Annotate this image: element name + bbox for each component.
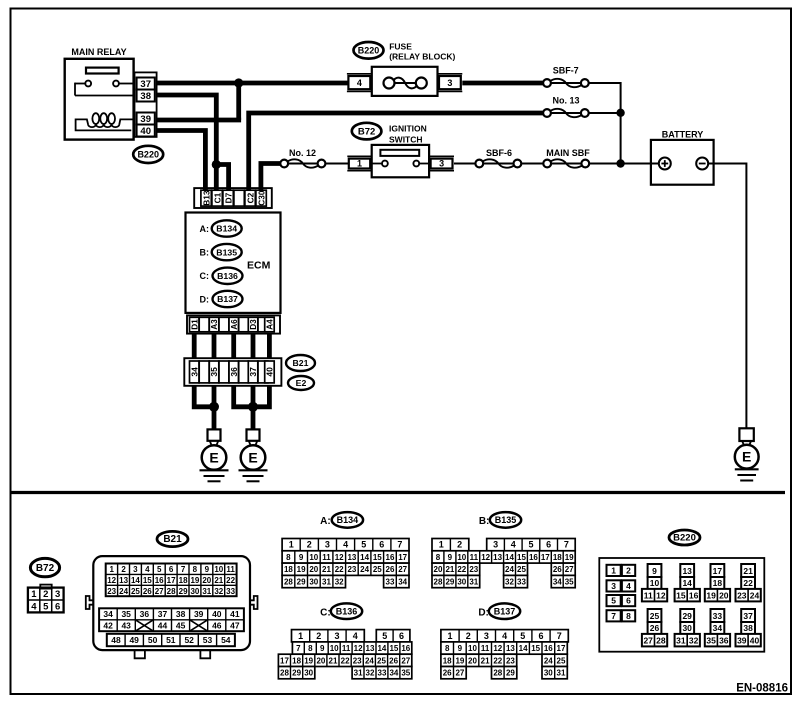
svg-text:49: 49	[129, 635, 139, 645]
svg-text:13: 13	[493, 553, 502, 562]
svg-text:5: 5	[611, 596, 616, 606]
svg-text:15: 15	[389, 644, 398, 653]
svg-text:38: 38	[743, 623, 753, 633]
svg-text:21: 21	[445, 565, 454, 574]
svg-text:B220: B220	[673, 533, 696, 544]
svg-text:27: 27	[643, 635, 653, 645]
wire D1 to 34	[192, 334, 197, 359]
svg-text:28: 28	[434, 578, 443, 587]
junction node on 37 line	[234, 78, 243, 87]
svg-text:B137: B137	[217, 294, 238, 304]
svg-text:13: 13	[366, 644, 375, 653]
connector B21 ref	[286, 355, 315, 371]
svg-text:37: 37	[743, 611, 753, 621]
svg-text:21: 21	[322, 565, 331, 574]
svg-text:27: 27	[398, 565, 407, 574]
svg-text:6: 6	[55, 602, 60, 613]
ignition switch pin 1	[347, 155, 371, 157]
svg-text:31: 31	[676, 635, 686, 645]
svg-text:5: 5	[43, 602, 49, 613]
svg-text:26: 26	[650, 623, 660, 633]
svg-text:24: 24	[360, 565, 369, 574]
svg-text:7: 7	[611, 611, 616, 621]
svg-text:34: 34	[389, 669, 398, 678]
wire A6 to 36	[231, 334, 236, 359]
svg-text:2: 2	[307, 540, 312, 550]
svg-text:B135: B135	[216, 247, 237, 257]
svg-text:5: 5	[361, 540, 366, 550]
ground terminal (battery)	[739, 428, 753, 441]
connector B220 (fuse box) label	[669, 530, 700, 545]
svg-text:11: 11	[644, 590, 653, 600]
svg-text:23: 23	[107, 587, 116, 596]
svg-text:FUSE: FUSE	[389, 41, 412, 51]
connector B220 (main relay)	[133, 146, 163, 163]
svg-text:C1: C1	[212, 192, 222, 203]
svg-text:34: 34	[553, 578, 562, 587]
svg-text:3: 3	[484, 631, 489, 641]
svg-text:46: 46	[212, 621, 222, 631]
ground terminal 2	[247, 429, 260, 440]
svg-text:12: 12	[493, 644, 502, 653]
svg-text:D:: D:	[478, 608, 489, 619]
svg-text:33: 33	[226, 587, 235, 596]
svg-text:35: 35	[121, 609, 131, 619]
B220 pins 21-24	[736, 564, 761, 601]
svg-text:3: 3	[334, 631, 339, 641]
junction node ground 1	[209, 402, 219, 412]
svg-text:11: 11	[342, 644, 351, 653]
svg-text:27: 27	[155, 587, 164, 596]
svg-text:D1: D1	[189, 319, 199, 330]
svg-text:B13: B13	[201, 190, 211, 206]
fuse block pin 4	[347, 73, 372, 75]
svg-text:1: 1	[298, 631, 303, 641]
svg-text:MAIN SBF: MAIN SBF	[546, 148, 590, 158]
connector A B134 pin grid	[282, 539, 409, 588]
svg-text:47: 47	[230, 621, 240, 631]
svg-text:C30: C30	[256, 190, 266, 206]
svg-text:E2: E2	[296, 378, 307, 388]
svg-text:12: 12	[107, 576, 116, 585]
svg-text:19: 19	[706, 590, 716, 600]
svg-text:No. 13: No. 13	[552, 96, 579, 106]
svg-text:14: 14	[377, 644, 386, 653]
wire branch 37-39 vertical	[236, 83, 241, 120]
svg-text:44: 44	[158, 621, 168, 631]
svg-text:27: 27	[401, 656, 410, 665]
svg-text:20: 20	[434, 565, 443, 574]
svg-text:28: 28	[280, 669, 289, 678]
svg-text:7: 7	[181, 565, 186, 574]
svg-text:4: 4	[502, 631, 507, 641]
ground E (2)	[241, 445, 266, 470]
svg-text:30: 30	[457, 578, 466, 587]
svg-text:26: 26	[443, 669, 452, 678]
svg-text:28: 28	[493, 669, 502, 678]
svg-text:No. 12: No. 12	[289, 148, 316, 158]
wire 35 to ground terminal	[212, 386, 217, 430]
svg-text:9: 9	[320, 644, 325, 653]
svg-text:11: 11	[226, 565, 235, 574]
svg-text:11: 11	[481, 644, 490, 653]
svg-text:22: 22	[457, 565, 466, 574]
B220 pins 25-28	[642, 609, 667, 646]
ground symbol (battery)	[735, 468, 759, 470]
svg-text:6: 6	[546, 540, 551, 550]
svg-text:9: 9	[448, 553, 453, 562]
fuse in relay block	[372, 67, 438, 96]
svg-text:21: 21	[214, 576, 223, 585]
svg-text:20: 20	[719, 590, 729, 600]
svg-text:5: 5	[528, 540, 533, 550]
svg-text:52: 52	[184, 635, 194, 645]
svg-text:31: 31	[557, 669, 566, 678]
svg-text:31: 31	[202, 587, 211, 596]
svg-text:34: 34	[398, 578, 407, 587]
svg-text:8: 8	[626, 611, 631, 621]
svg-text:25: 25	[131, 587, 140, 596]
svg-text:26: 26	[389, 656, 398, 665]
svg-text:14: 14	[360, 553, 369, 562]
svg-text:7: 7	[296, 644, 301, 653]
svg-text:31: 31	[469, 578, 478, 587]
svg-text:40: 40	[750, 635, 760, 645]
svg-text:16: 16	[544, 644, 553, 653]
wire branch to D7	[216, 165, 228, 191]
svg-text:40: 40	[265, 367, 275, 377]
svg-text:EN-08816: EN-08816	[736, 683, 788, 695]
svg-text:17: 17	[398, 553, 407, 562]
wire A4 to 40	[267, 334, 272, 359]
svg-text:14: 14	[131, 576, 140, 585]
svg-text:19: 19	[304, 656, 313, 665]
svg-text:35: 35	[706, 635, 716, 645]
svg-text:SBF-6: SBF-6	[486, 148, 512, 158]
svg-text:32: 32	[214, 587, 223, 596]
svg-text:18: 18	[179, 576, 188, 585]
svg-text:3: 3	[325, 540, 330, 550]
svg-text:MAIN RELAY: MAIN RELAY	[71, 47, 126, 57]
svg-text:18: 18	[443, 656, 452, 665]
svg-text:SBF-7: SBF-7	[553, 65, 579, 75]
svg-text:24: 24	[365, 656, 374, 665]
svg-text:19: 19	[565, 553, 574, 562]
main relay MR	[65, 47, 135, 140]
svg-text:50: 50	[148, 635, 158, 645]
svg-text:8: 8	[436, 553, 441, 562]
svg-text:E: E	[209, 450, 218, 466]
svg-text:33: 33	[386, 578, 395, 587]
connector B B135 pin grid	[432, 539, 575, 588]
section divider line	[11, 491, 786, 494]
svg-text:B21: B21	[163, 534, 182, 545]
B220 pins 33-36	[705, 609, 730, 646]
svg-text:24: 24	[750, 590, 760, 600]
svg-text:54: 54	[221, 635, 231, 645]
svg-text:16: 16	[386, 553, 395, 562]
wire SBF-7 to node	[589, 83, 621, 113]
svg-text:A3: A3	[209, 319, 219, 330]
svg-text:16: 16	[155, 576, 164, 585]
svg-text:14: 14	[682, 578, 692, 588]
svg-text:28: 28	[167, 587, 176, 596]
svg-text:19: 19	[455, 656, 464, 665]
svg-text:16: 16	[529, 553, 538, 562]
svg-text:E: E	[248, 450, 257, 466]
ECM top connector pins B13 C1 D7 C2 C30	[194, 188, 272, 208]
ECM bottom connector pins D1 A3 A6 D3 A4	[187, 315, 280, 333]
svg-text:28: 28	[656, 635, 666, 645]
svg-text:23: 23	[469, 565, 478, 574]
wire 37 to ground terminal	[251, 386, 256, 430]
svg-text:25: 25	[517, 565, 526, 574]
svg-text:10: 10	[650, 578, 660, 588]
connector E2 ref	[288, 376, 314, 390]
svg-text:B72: B72	[358, 126, 375, 137]
svg-text:1: 1	[447, 631, 452, 641]
svg-text:15: 15	[373, 553, 382, 562]
svg-text:24: 24	[505, 565, 514, 574]
svg-text:18: 18	[713, 578, 723, 588]
svg-text:17: 17	[557, 644, 566, 653]
svg-text:27: 27	[455, 669, 464, 678]
svg-text:12: 12	[335, 553, 344, 562]
ground symbol (1)	[200, 469, 229, 471]
svg-text:10: 10	[330, 644, 339, 653]
svg-text:29: 29	[445, 578, 454, 587]
ground terminal 1	[208, 429, 221, 440]
svg-text:2: 2	[121, 565, 126, 574]
wire 34 to junction	[194, 386, 214, 407]
svg-text:1: 1	[611, 566, 616, 576]
svg-text:5: 5	[157, 565, 162, 574]
svg-text:B134: B134	[337, 515, 359, 525]
connector B220 (fuse relay block)	[354, 42, 384, 59]
svg-text:18: 18	[553, 553, 562, 562]
svg-text:31: 31	[322, 578, 331, 587]
svg-text:A:: A:	[200, 224, 210, 234]
svg-text:9: 9	[652, 566, 657, 576]
svg-text:33: 33	[517, 578, 526, 587]
svg-text:35: 35	[565, 578, 574, 587]
svg-text:B:: B:	[479, 516, 490, 527]
svg-text:33: 33	[378, 669, 387, 678]
svg-text:20: 20	[316, 656, 325, 665]
ground E (1)	[202, 445, 227, 470]
wire ECM C30 to fuse No.12	[261, 164, 281, 191]
svg-text:15: 15	[517, 553, 526, 562]
svg-text:B135: B135	[495, 515, 517, 525]
B220 pins 9-12	[642, 564, 667, 601]
svg-text:6: 6	[379, 540, 384, 550]
svg-text:1: 1	[289, 540, 294, 550]
svg-text:37: 37	[248, 367, 258, 377]
wire D3 to 37	[251, 334, 256, 359]
svg-text:1: 1	[439, 540, 444, 550]
svg-text:20: 20	[309, 565, 318, 574]
svg-text:4: 4	[145, 565, 150, 574]
svg-text:28: 28	[284, 578, 293, 587]
body connector row pins 34 35 36 37 40	[184, 358, 281, 386]
B220 pins 29-32	[675, 609, 700, 646]
wire pin39 horizontal	[157, 118, 242, 123]
svg-text:B21: B21	[293, 358, 309, 368]
svg-text:12: 12	[354, 644, 363, 653]
svg-text:30: 30	[544, 669, 553, 678]
svg-text:36: 36	[229, 367, 239, 377]
svg-text:40: 40	[140, 126, 151, 137]
svg-text:8: 8	[308, 644, 313, 653]
svg-text:29: 29	[297, 578, 306, 587]
svg-text:17: 17	[713, 566, 723, 576]
fuse block pin 3	[438, 73, 463, 75]
svg-text:C:: C:	[320, 608, 331, 619]
B220 pins 37-40	[736, 609, 761, 646]
wire fuse pin3 to SBF-7	[462, 81, 543, 86]
svg-text:3: 3	[439, 159, 444, 169]
svg-text:3: 3	[133, 565, 138, 574]
svg-text:25: 25	[557, 656, 566, 665]
svg-text:27: 27	[565, 565, 574, 574]
connector B21 pinout label	[157, 531, 188, 546]
wire MAIN SBF to battery	[589, 163, 659, 165]
wire No.13 run to ECM C2	[249, 113, 543, 190]
junction node on C1 wire	[212, 160, 221, 169]
svg-text:17: 17	[280, 656, 289, 665]
svg-text:23: 23	[506, 656, 515, 665]
svg-text:30: 30	[304, 669, 313, 678]
svg-text:34: 34	[103, 609, 113, 619]
svg-text:C:: C:	[200, 271, 210, 281]
svg-text:21: 21	[481, 656, 490, 665]
svg-text:36: 36	[719, 635, 729, 645]
svg-text:48: 48	[111, 635, 121, 645]
svg-text:34: 34	[189, 367, 199, 377]
svg-text:22: 22	[743, 578, 753, 588]
svg-text:A6: A6	[229, 319, 239, 330]
svg-text:18: 18	[284, 565, 293, 574]
svg-text:12: 12	[656, 590, 666, 600]
svg-text:32: 32	[335, 578, 344, 587]
connector B72 pinout	[30, 558, 59, 576]
svg-text:B220: B220	[137, 150, 159, 160]
wire A3 to 35	[212, 334, 217, 359]
svg-text:E: E	[742, 449, 751, 465]
svg-text:6: 6	[169, 565, 174, 574]
svg-text:43: 43	[121, 621, 131, 631]
svg-text:2: 2	[466, 631, 471, 641]
svg-text:25: 25	[377, 656, 386, 665]
main relay connector pins 37 38 39 40	[135, 72, 157, 137]
svg-text:25: 25	[650, 611, 660, 621]
svg-text:13: 13	[682, 566, 692, 576]
ignition switch pin 3	[429, 155, 454, 157]
wire 40 to junction	[253, 386, 269, 407]
svg-text:SWITCH: SWITCH	[389, 135, 423, 145]
svg-text:22: 22	[493, 656, 502, 665]
B220 fuse box outline	[599, 558, 764, 652]
svg-text:35: 35	[209, 367, 219, 377]
svg-text:51: 51	[166, 635, 176, 645]
wire SBF-6 to MAIN SBF	[521, 163, 543, 165]
B220 pins 13-16	[675, 564, 700, 601]
svg-text:19: 19	[190, 576, 199, 585]
svg-text:16: 16	[401, 644, 410, 653]
svg-text:B136: B136	[336, 606, 358, 616]
svg-text:22: 22	[226, 576, 235, 585]
wire battery minus to ground	[708, 164, 746, 429]
svg-text:42: 42	[103, 621, 113, 631]
svg-text:2: 2	[43, 589, 48, 600]
wire No.13 to node	[589, 112, 621, 114]
svg-text:8: 8	[286, 553, 291, 562]
svg-text:2: 2	[626, 566, 631, 576]
svg-text:2: 2	[316, 631, 321, 641]
svg-text:7: 7	[564, 540, 569, 550]
svg-text:B:: B:	[200, 248, 210, 258]
svg-text:4: 4	[353, 631, 358, 641]
svg-text:B136: B136	[217, 271, 238, 281]
svg-text:32: 32	[689, 635, 699, 645]
svg-text:24: 24	[544, 656, 553, 665]
svg-text:B137: B137	[494, 606, 516, 616]
svg-text:53: 53	[203, 635, 213, 645]
svg-text:5: 5	[382, 631, 387, 641]
svg-text:38: 38	[176, 609, 186, 619]
svg-text:11: 11	[322, 553, 331, 562]
wire No.12 to ignition pin1	[325, 163, 349, 165]
svg-text:39: 39	[140, 114, 151, 125]
svg-text:D:: D:	[200, 294, 210, 304]
ground symbol (2)	[239, 469, 268, 471]
svg-text:29: 29	[506, 669, 515, 678]
svg-text:13: 13	[506, 644, 515, 653]
svg-text:33: 33	[713, 611, 723, 621]
svg-text:7: 7	[557, 631, 562, 641]
connector B72 (ignition switch)	[352, 123, 382, 140]
svg-text:14: 14	[519, 644, 528, 653]
svg-text:10: 10	[309, 553, 318, 562]
svg-text:45: 45	[176, 621, 186, 631]
svg-text:13: 13	[347, 553, 356, 562]
svg-text:4: 4	[626, 581, 631, 591]
svg-text:26: 26	[553, 565, 562, 574]
svg-text:1: 1	[357, 159, 362, 169]
svg-text:D3: D3	[248, 319, 258, 330]
svg-text:30: 30	[309, 578, 318, 587]
B220 pins 1-8	[607, 565, 636, 622]
svg-text:10: 10	[457, 553, 466, 562]
svg-text:22: 22	[341, 656, 350, 665]
svg-text:19: 19	[297, 565, 306, 574]
B21 pins 1-33 grid	[106, 564, 237, 597]
svg-text:15: 15	[143, 576, 152, 585]
svg-text:9: 9	[458, 644, 463, 653]
svg-text:4: 4	[31, 602, 37, 613]
svg-text:B134: B134	[216, 224, 237, 234]
svg-text:IGNITION: IGNITION	[389, 124, 427, 134]
wire pin40 to ECM B13	[157, 131, 206, 191]
svg-text:ECM: ECM	[247, 260, 271, 272]
wire ignition pin3 to SBF-6	[454, 163, 475, 165]
svg-text:26: 26	[143, 587, 152, 596]
svg-text:1: 1	[109, 565, 114, 574]
svg-text:6: 6	[626, 596, 631, 606]
svg-text:6: 6	[399, 631, 404, 641]
svg-text:9: 9	[205, 565, 210, 574]
svg-text:2: 2	[457, 540, 462, 550]
